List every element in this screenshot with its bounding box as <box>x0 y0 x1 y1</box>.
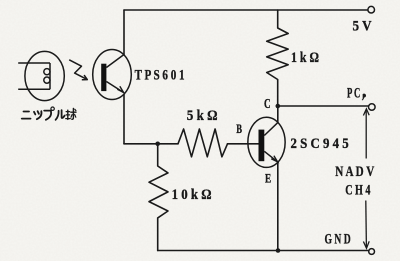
node junction dot (base node) <box>155 142 160 147</box>
node C junction dot <box>276 104 281 109</box>
transistor 2SC945 base bar <box>259 130 265 162</box>
phototransistor Q1 TPS601 body <box>93 50 132 100</box>
resistor R 5k zigzag <box>178 129 228 157</box>
resistor R 10k zigzag <box>149 144 168 251</box>
wire top rail <box>124 9 368 11</box>
resistor R 1k zigzag <box>267 10 289 106</box>
transistor 2SC945 emitter stroke with arrow <box>264 151 277 161</box>
wire node C to PC terminal <box>278 105 369 107</box>
phototransistor TPS601 collector stroke <box>106 55 124 68</box>
svg-text:N A D V: N A D V <box>335 164 374 180</box>
svg-text:G N D: G N D <box>325 231 351 247</box>
lamp leads <box>18 62 50 64</box>
svg-text:5 V: 5 V <box>353 19 372 35</box>
label nipple-bulb (Japanese, hand-drawn strokes) <box>22 107 76 120</box>
svg-text:C: C <box>264 96 271 111</box>
arrow down to GND terminal <box>363 201 369 249</box>
svg-text:B: B <box>236 121 242 136</box>
light arrow (zigzag) <box>69 60 87 80</box>
svg-text:1 k Ω: 1 k Ω <box>291 50 319 66</box>
terminal 5V (open circle) <box>368 6 375 13</box>
lamp (nipple bulb) body <box>18 51 64 100</box>
terminal GND (open circle) <box>369 249 375 255</box>
katakana ni <box>24 111 30 113</box>
transistor 2SC945 collector stroke <box>264 123 278 136</box>
terminal PC (open circle) <box>369 104 376 111</box>
transistor Q2 2SC945 body <box>248 117 285 167</box>
phototransistor TPS601 base bar <box>101 64 106 91</box>
lamp filament coil <box>49 63 51 89</box>
svg-text:T P S 6 0 1: T P S 6 0 1 <box>135 68 185 84</box>
svg-text:5 k Ω: 5 k Ω <box>187 108 218 124</box>
katakana ru <box>56 111 59 120</box>
svg-text:C H 4: C H 4 <box>345 183 371 199</box>
phototransistor TPS601 emitter stroke with arrow <box>106 82 123 93</box>
wire C node down to 2SC945 collector <box>277 106 279 122</box>
wire bottom rail <box>158 250 369 252</box>
wire left vertical upper (5V rail to TPS601 collector) <box>123 10 125 55</box>
svg-text:P C: P C <box>347 86 360 102</box>
node junction dot on ground rail <box>276 248 281 253</box>
svg-text:E: E <box>265 171 271 186</box>
wire left vertical lower (TPS601 emitter down) <box>123 94 125 144</box>
katakana small tsu <box>34 112 35 115</box>
label PC subscript comma <box>362 94 366 101</box>
kanji kyu (ball) <box>67 110 69 119</box>
wire horizontal to base node <box>124 143 178 145</box>
svg-text:1 0 k Ω: 1 0 k Ω <box>172 187 212 203</box>
wire 5k to 2SC945 base <box>228 143 259 145</box>
wire 2SC945 emitter down to ground rail <box>277 162 279 250</box>
katakana pu <box>44 110 51 112</box>
svg-text:2 S C 9 4 5: 2 S C 9 4 5 <box>291 136 349 152</box>
arrow up to PC terminal <box>363 109 369 159</box>
